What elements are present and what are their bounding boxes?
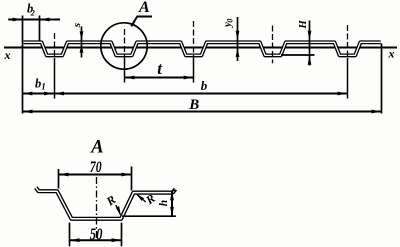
- h top extension: [172, 190, 176, 192]
- 50 dimension line: [70, 239, 122, 241]
- H bottom extension tick: [281, 54, 315, 56]
- 70 extension left: [58, 169, 60, 189]
- leader to A: [131, 17, 152, 27]
- b2 extension line left: [22, 16, 24, 114]
- rib 4 center line: [272, 26, 274, 64]
- svg-text:B: B: [188, 97, 199, 113]
- detail center line: [96, 177, 98, 241]
- R left leader: [116, 205, 121, 215]
- t dimension line: [125, 77, 194, 79]
- b2 dimension line: [8, 19, 60, 21]
- svg-text:H: H: [298, 20, 309, 30]
- b arrows: [54, 92, 64, 96]
- svg-text:x: x: [388, 47, 395, 61]
- s dimension line: [81, 27, 83, 58]
- axis x-x: [4, 47, 397, 49]
- sheet profile outer: [24, 42, 381, 55]
- 70 extension right: [131, 167, 133, 191]
- svg-text:70: 70: [90, 159, 102, 176]
- svg-text:x: x: [4, 48, 11, 62]
- svg-text:50: 50: [90, 225, 103, 244]
- svg-text:A: A: [138, 0, 150, 16]
- rib 1 center line: [54, 33, 56, 58]
- sheet profile inner white core: [24, 42, 381, 55]
- svg-text:b: b: [201, 78, 208, 93]
- b1 arrows: [23, 92, 33, 96]
- H dimension line: [309, 21, 311, 66]
- B dimension line: [23, 111, 382, 113]
- svg-text:h: h: [158, 200, 170, 206]
- h bottom extension: [122, 215, 176, 217]
- detail profile outer: [36, 188, 176, 219]
- h dimension line: [171, 191, 173, 216]
- 50 extension right: [121, 223, 123, 247]
- B right extension line: [381, 44, 383, 114]
- R right leader: [137, 195, 146, 203]
- y0 dimension line: [237, 17, 239, 61]
- detail circle A: [101, 23, 147, 69]
- b2 extension line right: [39, 16, 41, 42]
- detail profile white core: [36, 188, 176, 219]
- rib 3 center line: [193, 21, 195, 58]
- svg-text:s: s: [71, 23, 83, 28]
- 70 dimension line: [59, 174, 132, 176]
- rib 2 center line: [124, 29, 126, 58]
- 50 extension left: [69, 223, 71, 247]
- b1 / b dimension line: [23, 93, 348, 95]
- rib 5 center line: [347, 25, 349, 58]
- svg-text:A: A: [90, 138, 103, 158]
